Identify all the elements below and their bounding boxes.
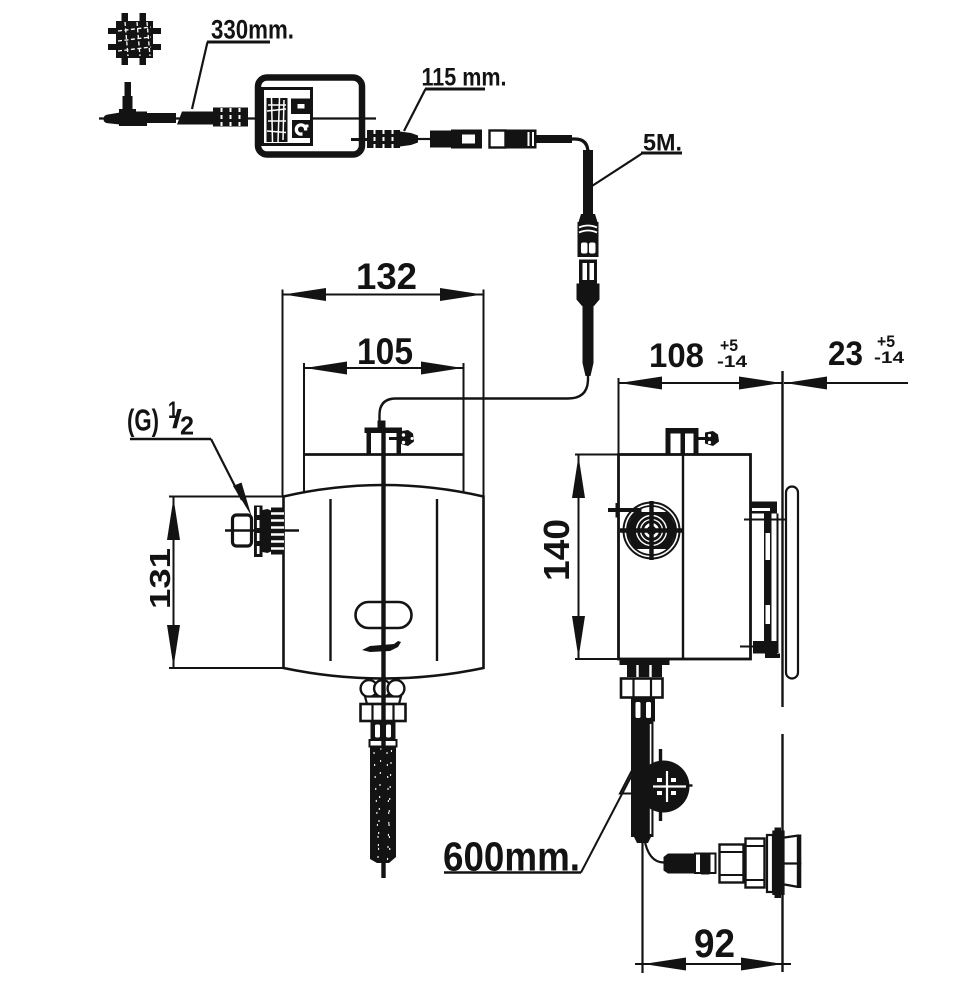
dim 140 xyxy=(536,455,618,660)
wire: corner from horizontal to vertical xyxy=(560,139,588,215)
dim 132 xyxy=(283,256,484,497)
wall line xyxy=(781,371,783,972)
label hand icon xyxy=(292,120,311,138)
mounting plate top edge xyxy=(304,453,464,456)
cable body down xyxy=(583,305,594,363)
sensor cable to wall connector xyxy=(644,837,664,863)
svg-text:330mm.: 330mm. xyxy=(211,15,294,45)
svg-text:115 mm.: 115 mm. xyxy=(422,64,507,92)
dim label 330mm xyxy=(192,15,294,110)
svg-text:92: 92 xyxy=(694,922,735,966)
svg-text:(G): (G) xyxy=(127,403,159,438)
dim 131 xyxy=(145,497,283,669)
water inlet circle (side) xyxy=(608,501,684,560)
bottom outlet fitting (side) xyxy=(620,660,670,722)
cable down with inline connector pair xyxy=(380,139,600,428)
wall plate (edge view) xyxy=(786,487,798,679)
top inlet fitting (front) xyxy=(365,421,415,455)
adapter box xyxy=(256,78,376,155)
dim label 5M xyxy=(592,130,682,187)
label fine print blob xyxy=(267,98,288,142)
dim label 115mm xyxy=(404,64,507,132)
power cord from plug to adapter xyxy=(99,108,258,128)
side water port fitting (G 1/2) xyxy=(225,506,299,558)
trumpet cone behind wall xyxy=(785,836,799,838)
sensor body circle xyxy=(638,749,693,821)
svg-text:131: 131 xyxy=(145,548,177,609)
hose (side, solid) xyxy=(631,721,654,843)
svg-text:-14: -14 xyxy=(717,352,748,371)
connector w slots xyxy=(371,721,396,741)
svg-text:-14: -14 xyxy=(874,348,905,367)
svg-text:23: 23 xyxy=(828,335,863,373)
warning triangle xyxy=(620,767,644,794)
connector female lower xyxy=(579,260,597,284)
inline connector pair horizontal xyxy=(430,131,452,148)
beads xyxy=(361,680,378,697)
connector male upper xyxy=(579,214,598,222)
control box body front xyxy=(284,485,484,679)
box centerline front xyxy=(381,428,385,878)
svg-text:2: 2 xyxy=(180,411,194,441)
small arrow mark xyxy=(362,641,401,652)
dim 23 +5/-14 xyxy=(784,332,908,390)
bottom outlet fitting (front) xyxy=(361,680,406,746)
svg-text:132: 132 xyxy=(356,256,417,297)
dim label 600mm xyxy=(443,770,635,880)
braided hose (front) xyxy=(370,747,396,864)
sensor window oval xyxy=(356,602,412,628)
centerline below hose (side) xyxy=(641,843,643,973)
svg-text:108: 108 xyxy=(649,337,704,375)
top inlet fitting (side) xyxy=(666,428,720,455)
hex nut xyxy=(361,704,406,721)
through-wall sensor connector xyxy=(664,828,802,899)
(G)1/2 label xyxy=(127,397,252,516)
AC plug side view with prong xyxy=(104,82,148,126)
mounting bracket (side) xyxy=(740,502,786,659)
control box body side xyxy=(619,455,751,660)
svg-text:140: 140 xyxy=(536,519,577,581)
label small square icon xyxy=(291,99,311,115)
dim 105 xyxy=(304,331,464,494)
dim 92 xyxy=(635,922,791,971)
wire curving left to front view xyxy=(380,375,589,428)
svg-text:105: 105 xyxy=(357,331,413,372)
AC plug face view (hatched block with pins) xyxy=(108,13,161,65)
dim 108 +5/-14 xyxy=(619,336,783,454)
adapter output cord xyxy=(367,130,572,149)
